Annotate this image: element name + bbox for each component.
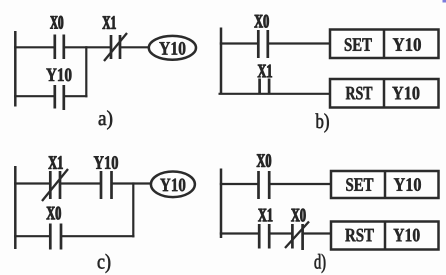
subfigure label b): [316, 113, 329, 132]
wire rung1 (c): rail to X1: [14, 182, 50, 184]
wire rung1 (a): X0 to X1: [64, 46, 111, 48]
wire rung1 (a): rail to X0: [14, 46, 55, 48]
label Y10 (c): [94, 156, 118, 169]
label SET in box (d): [346, 178, 373, 191]
label Y10 in RST box (d): [393, 229, 419, 242]
subfigure label a): [99, 110, 112, 129]
label Y10 in SET box (b): [393, 38, 421, 51]
coil Y10 (a): [149, 36, 196, 60]
wire rung1 (d): X0 to SET box: [269, 183, 331, 185]
wire rung1 (c): X1 to Y10 contact: [60, 182, 101, 184]
NO contact Y10 (c): [101, 171, 112, 199]
wire rung1 (b): X0 to SET box: [268, 42, 330, 44]
label X1 (a): [103, 16, 116, 29]
left power rail (b): [220, 28, 223, 95]
wire branch junction vertical (a): [85, 46, 87, 97]
label X0 (d rung1): [257, 154, 271, 167]
wire rung2 (b): rail to RST box: [219, 93, 331, 95]
wire rung2 (d): X1 to X0: [269, 232, 292, 234]
label X0 (b): [254, 15, 268, 28]
wire rung2 (c): X0 to junction: [61, 235, 135, 237]
label X0 (a): [50, 16, 63, 29]
wire rung2 (a): Y10 contact to junction: [64, 95, 88, 97]
label Y10 (a branch): [46, 68, 71, 81]
label Y10 in SET box (d): [394, 178, 421, 191]
RST box (d): [331, 222, 439, 250]
left power rail (d): [220, 169, 223, 239]
wire rung2 (a): rail to Y10 contact: [14, 95, 55, 97]
subfigure label c): [98, 254, 111, 273]
wire rung2 (d): rail to X1: [220, 232, 259, 234]
NC contact X0 (d): [285, 222, 309, 251]
label Y10 inside coil (a): [159, 42, 185, 55]
NO contact X0 (a): [55, 35, 64, 60]
label X0 (c): [47, 207, 61, 220]
wire branch junction vertical (c): [132, 182, 134, 237]
label X0 (d rung2): [291, 209, 305, 222]
label X1 (c): [49, 156, 63, 169]
wire rung1 (b): rail to X0: [220, 42, 258, 44]
NO contact X1 (b): [260, 79, 270, 95]
wire rung2 (c): rail to X0: [14, 235, 50, 237]
wire rung1 (a): X1 to coil: [120, 46, 149, 48]
RST box (b): [330, 79, 439, 108]
NC contact X1 (a): [104, 33, 127, 61]
SET box (b): [330, 30, 439, 59]
NO contact X0 (d): [259, 171, 270, 199]
NO contact X0 (c): [50, 224, 61, 250]
wire rung1 (d): rail to X0: [220, 183, 258, 185]
NO contact X0 (b): [258, 30, 268, 58]
NC contact X1 (c): [42, 169, 68, 201]
label X1 (b): [258, 65, 272, 78]
label SET in box (b): [345, 38, 372, 51]
coil Y10 (c): [151, 172, 195, 198]
subfigure label d): [315, 254, 326, 273]
NO contact Y10 (a): [55, 85, 64, 110]
label X1 (d): [258, 209, 272, 222]
label Y10 inside coil (c): [160, 178, 185, 191]
label RST in box (d): [345, 229, 374, 242]
left power rail (a): [14, 31, 17, 107]
wire rung2 (d): X0 to RST box: [303, 232, 331, 234]
label RST in box (b): [346, 87, 373, 100]
left power rail (c): [14, 166, 17, 249]
label Y10 in RST box (b): [392, 87, 419, 100]
SET box (d): [331, 171, 439, 198]
wire rung1 (c): Y10 contact to coil: [112, 182, 152, 184]
NO contact X1 (d): [259, 224, 269, 249]
